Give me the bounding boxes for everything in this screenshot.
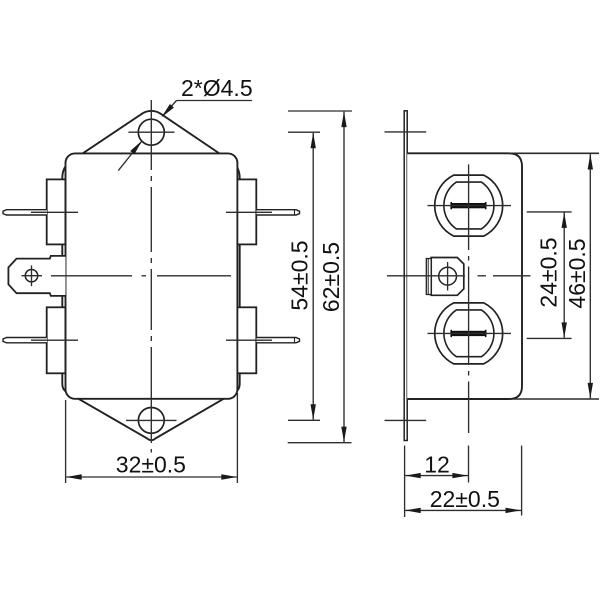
- 54 bottom arrow: [311, 404, 316, 420]
- 12 left arrow: [405, 473, 421, 478]
- bottom hole horizontal crosshair: [126, 419, 177, 421]
- svg-text:2*Ø4.5: 2*Ø4.5: [181, 75, 253, 101]
- faston hole horizontal crosshair: [22, 275, 43, 277]
- lower-left terminal block: [47, 307, 66, 373]
- faston hole vertical crosshair: [31, 265, 33, 286]
- side view vertical centerline: [468, 164, 470, 433]
- upper-right pin: [257, 210, 300, 215]
- ground lug hole vertical crosshair: [447, 262, 449, 291]
- 54 dimension line: [312, 133, 314, 420]
- top slot left end tick: [450, 202, 452, 209]
- horizontal centerline dot (side view): [478, 275, 487, 277]
- svg-text:62±0.5: 62±0.5: [318, 242, 344, 312]
- svg-text:46±0.5: 46±0.5: [564, 238, 590, 308]
- 22 dimension line: [405, 509, 521, 511]
- leader diagonal to hole: [163, 101, 177, 116]
- 46 top arrow: [588, 154, 593, 170]
- 24 dimension line: [563, 212, 565, 338]
- 62 top arrow: [341, 112, 346, 128]
- 54 top extension line: [288, 131, 320, 133]
- 32 dimension line: [66, 476, 237, 478]
- lower-left pin: [3, 338, 47, 343]
- bottom slot left end tick: [450, 330, 452, 337]
- lower-right terminal block: [237, 307, 256, 373]
- 32 left arrow: [66, 474, 82, 479]
- bottom mounting hole: [138, 408, 164, 434]
- 12 left extension line: [404, 446, 406, 517]
- 22 left arrow: [405, 508, 421, 513]
- leader arrowhead upper: [162, 104, 174, 117]
- 32 right extension line: [236, 393, 238, 483]
- ground lug folded edge: [426, 259, 431, 295]
- 46 dimension line: [589, 154, 591, 398]
- lower-right pin centerline: [226, 339, 272, 341]
- bottom connector outer barrel: [435, 303, 503, 364]
- svg-text:22±0.5: 22±0.5: [430, 486, 500, 512]
- 24 bottom extension line: [527, 337, 572, 339]
- leader arrowhead lower: [130, 141, 142, 155]
- svg-text:12: 12: [424, 452, 450, 478]
- horizontal centerline dash (front view, through tab): [51, 275, 132, 277]
- svg-text:24±0.5: 24±0.5: [536, 237, 562, 307]
- 32 left extension line: [65, 400, 67, 483]
- 12 middle extension line: [468, 446, 470, 483]
- 46 bottom arrow: [588, 383, 593, 399]
- horizontal centerline dash (side view, right end): [493, 275, 531, 277]
- ground lug hole: [439, 267, 457, 285]
- top mounting hole: [138, 119, 164, 145]
- top connector outer barrel: [435, 175, 503, 236]
- 12 dimension line: [405, 475, 468, 477]
- top hole horizontal crosshair: [128, 131, 174, 133]
- 62 bottom arrow: [341, 427, 346, 443]
- leader underline: [177, 100, 253, 102]
- vertical centerline of front view: [150, 100, 152, 453]
- mounting flange plate (edge-on): [404, 111, 407, 441]
- lower-right pin: [257, 338, 300, 343]
- 24 top extension line: [527, 211, 572, 213]
- body top edge extension to 46 dim: [508, 152, 599, 154]
- top connector screw slot: [451, 203, 487, 208]
- upper-right terminal block: [237, 179, 256, 244]
- faston tab hole: [25, 270, 37, 282]
- bottom slot right end tick: [485, 330, 487, 337]
- top slot right end tick: [485, 202, 487, 209]
- svg-text:32±0.5: 32±0.5: [116, 452, 186, 478]
- bottom connector screw slot: [451, 331, 487, 336]
- upper-left pin centerline: [31, 211, 78, 213]
- 54 bottom extension line: [288, 419, 320, 421]
- upper-left pin: [3, 210, 47, 215]
- top connector inner ring: [444, 182, 494, 229]
- 24 bottom arrow: [562, 322, 567, 338]
- top hole centerline tick: [385, 131, 427, 133]
- flange plate silhouette (roof, sides, bottom V): [62, 111, 239, 440]
- ground lug plate: [431, 258, 464, 296]
- upper-right pin centerline: [226, 211, 272, 213]
- horizontal centerline dash (side view, through lug): [387, 275, 465, 277]
- bottom connector horizontal crosshair: [428, 332, 512, 334]
- svg-text:54±0.5: 54±0.5: [287, 240, 313, 310]
- 62 dimension line: [343, 112, 345, 443]
- lower-left pin centerline: [31, 339, 78, 341]
- 12 right arrow: [452, 473, 468, 478]
- bottom hole centerline tick: [385, 419, 427, 421]
- ground faston tab: [8, 256, 65, 296]
- side body outline: [407, 153, 522, 399]
- horizontal centerline dot (front view): [142, 275, 147, 277]
- ground lug fold inner line: [427, 259, 429, 295]
- 22 right extension line: [521, 446, 523, 516]
- lower-right pin tip notch: [294, 338, 296, 343]
- 32 right arrow: [221, 474, 237, 479]
- leader lower segment: [118, 142, 141, 171]
- 54 top arrow: [311, 133, 316, 149]
- bottom connector inner ring: [444, 310, 494, 357]
- 22 right arrow: [506, 508, 522, 513]
- body bottom edge extension to 46 dim: [508, 398, 599, 400]
- top connector horizontal crosshair: [428, 205, 512, 207]
- 62 bottom extension line: [288, 442, 352, 444]
- upper-right pin tip notch: [294, 210, 296, 215]
- 24 top arrow: [562, 212, 567, 228]
- body front face: [66, 153, 238, 398]
- 62 top extension line: [288, 110, 352, 112]
- horizontal centerline dash (front view, right of center): [157, 275, 231, 277]
- upper-left terminal block: [47, 179, 66, 244]
